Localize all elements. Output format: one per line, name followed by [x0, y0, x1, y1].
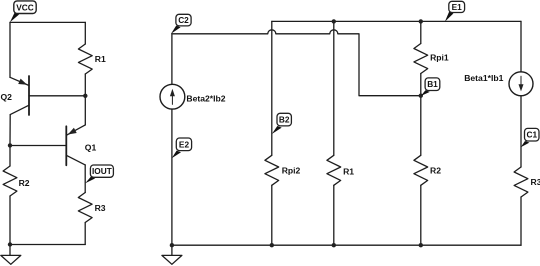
wire: Q1 collector to IOUT node: [84, 165, 86, 193]
wire: Q2 collector down to node: [9, 115, 11, 146]
wire: left circuit left rail upper (VCC to Q2 emitter): [9, 22, 11, 77]
resistor R1 (right circuit): [327, 155, 341, 245]
wire: R2 column upper (B1 node down): [420, 96, 422, 156]
resistor R3 (left circuit): [78, 193, 92, 245]
transistor Q1 (PNP, base on left): [66, 125, 85, 165]
wire: R1 node down to Q1 emitter: [84, 96, 86, 125]
svg-text:C2: C2: [178, 15, 189, 25]
resistor Rpi2: [265, 155, 279, 245]
wire: Q1 base: [10, 145, 66, 147]
wire: Rpi2 column upper: [271, 21, 273, 155]
current source Beta1*Ib1: [509, 72, 533, 96]
svg-text:R3: R3: [95, 203, 106, 213]
resistor R1 (left circuit): [78, 22, 92, 95]
flag B2: [272, 113, 292, 134]
resistor Rpi1: [414, 44, 428, 96]
svg-text:Rpi1: Rpi1: [430, 53, 449, 63]
wire: left circuit bottom rail: [10, 244, 85, 246]
svg-text:E1: E1: [452, 2, 463, 12]
flag IOUT: [85, 165, 113, 183]
svg-text:C1: C1: [526, 130, 537, 140]
wire: R1 column upper: [333, 21, 335, 155]
flag B1: [421, 78, 440, 96]
svg-text:Beta1*Ib1: Beta1*Ib1: [464, 73, 503, 83]
svg-text:E2: E2: [179, 139, 190, 149]
node B1 junction: [419, 94, 423, 98]
node: top rail / Rpi1 column: [419, 19, 423, 23]
svg-text:Q2: Q2: [1, 92, 13, 102]
resistor R2 (left circuit): [3, 145, 17, 244]
svg-text:VCC: VCC: [16, 2, 34, 12]
flag C2: [171, 14, 191, 33]
wire: Beta1 column upper: [520, 21, 522, 72]
svg-text:R2: R2: [430, 166, 441, 176]
svg-text:B2: B2: [279, 115, 290, 125]
node: top rail / R1 column: [332, 19, 336, 23]
transistor Q2 (PNP, base on right): [10, 76, 85, 115]
svg-text:B1: B1: [427, 79, 438, 89]
ground (right circuit): [162, 245, 182, 264]
node: bottom rail / ground right: [170, 243, 174, 247]
flag C1: [521, 128, 539, 147]
node: Q2 collector / R2 / Q1 base: [8, 143, 12, 147]
resistor R2 (right circuit): [414, 155, 428, 245]
svg-text:Beta2*Ib2: Beta2*Ib2: [186, 94, 225, 104]
wire: C2 column upper: [171, 34, 173, 85]
wire: E2 column lower: [171, 109, 173, 245]
svg-text:Rpi2: Rpi2: [282, 166, 301, 176]
wire: C2 net top (wire B) with hops over Rpi2 and R1 columns: [172, 30, 421, 96]
flag E2: [172, 138, 192, 158]
wire: left circuit top rail: [10, 21, 85, 23]
node: bottom rail / R2 right: [419, 243, 423, 247]
wire: right circuit bottom rail: [172, 244, 521, 246]
flag VCC: [10, 1, 36, 22]
flag E1: [445, 1, 465, 21]
wire: top rail E1 net (wire A): [272, 20, 521, 22]
svg-text:IOUT: IOUT: [92, 166, 112, 176]
svg-text:R3: R3: [531, 177, 540, 187]
svg-text:R1: R1: [343, 167, 354, 177]
current source Beta2*Ib2: [160, 84, 185, 109]
node: bottom rail / Rpi2: [270, 243, 274, 247]
wire: Rpi1 column upper: [420, 21, 422, 43]
node: bottom rail / R1 right: [332, 243, 336, 247]
resistor R3 (right circuit): [514, 167, 528, 245]
wire: C1 column (Beta1 bottom to R3): [520, 96, 522, 167]
svg-text:R2: R2: [19, 178, 30, 188]
node: Q2 base / R1 / Q1 emitter: [83, 94, 87, 98]
ground (left circuit): [1, 245, 21, 265]
svg-text:Q1: Q1: [85, 143, 97, 153]
node: left bottom rail / ground: [8, 242, 12, 246]
svg-text:R1: R1: [95, 54, 106, 64]
